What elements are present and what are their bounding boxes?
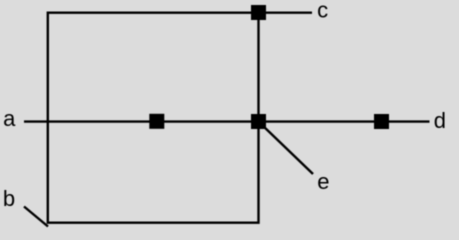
svg-text:d: d (434, 108, 446, 133)
svg-text:e: e (317, 169, 329, 194)
svg-text:c: c (317, 0, 328, 22)
svg-text:a: a (3, 106, 16, 131)
svg-text:b: b (3, 186, 15, 211)
